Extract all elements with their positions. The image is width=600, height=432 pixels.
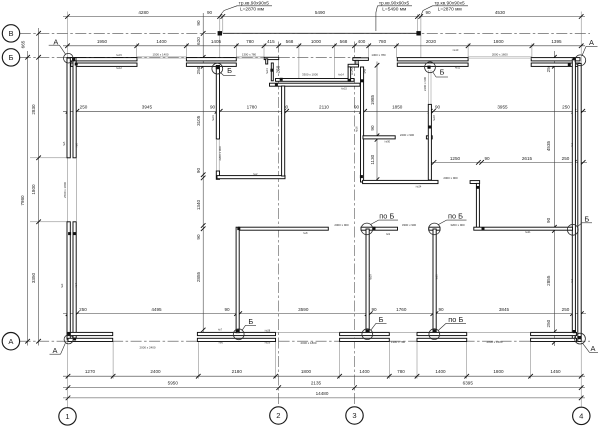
interior wall room right door opening twin faint lines (428, 70, 430, 104)
svg-text:3: 3 (352, 411, 356, 420)
extension lines post 1 (219, 16, 221, 59)
step middle horizontal piece (348, 64, 358, 67)
bottom wall upper chord seg 2180 (197, 332, 275, 335)
junction circle Б (bottom wall 2) (362, 329, 373, 340)
svg-text:№28: №28 (265, 328, 271, 332)
splice block left wall b (73, 232, 76, 235)
svg-text:1800: 1800 (31, 184, 36, 195)
svg-text:2180: 2180 (232, 369, 243, 374)
svg-text:№1: №1 (570, 278, 574, 283)
corner block bottom-right a (573, 330, 576, 333)
interior hook wall vertical (476, 183, 479, 229)
svg-text:№30: №30 (384, 140, 390, 144)
junction block bottom wall 1 (236, 329, 239, 332)
svg-text:№21: №21 (525, 230, 531, 234)
bottom wall upper chord seg 1400a (340, 332, 390, 335)
junction block top wall mid (427, 66, 430, 69)
svg-text:90: 90 (484, 156, 490, 161)
dimension line mid column (620/3105/1340/2855) (202, 13, 204, 333)
svg-text:№6: №6 (74, 143, 78, 148)
svg-text:1800: 1800 (493, 369, 504, 374)
window sill line top wall gap 1500x1400 (137, 56, 186, 58)
right wall outer chord (572, 59, 575, 342)
junction block recess b (280, 78, 283, 81)
svg-text:L=2870 мм: L=2870 мм (240, 7, 264, 13)
interior wall room right vertical solid part (428, 104, 431, 180)
svg-text:3350: 3350 (31, 272, 36, 283)
extension lines left (30, 157, 68, 159)
dimension line right column (250/4535/90/2855/250) (553, 51, 555, 346)
junction block room left wall top (360, 79, 363, 82)
recess wall upper chord (276, 79, 355, 82)
axis bubble 3 (346, 407, 363, 424)
step left connector vertical lower (348, 67, 351, 81)
svg-text:№31: №31 (211, 115, 215, 121)
svg-text:L=5490 мм: L=5490 мм (382, 7, 406, 13)
interior wall vertical below по Б 2 (433, 229, 436, 332)
dimension line interior row (4495/3590/1760/3845) (63, 313, 586, 315)
svg-text:№4: №4 (74, 283, 78, 288)
junction block top-right a (573, 57, 576, 60)
svg-text:3845: 3845 (499, 307, 510, 312)
svg-text:№3: №3 (60, 283, 64, 288)
svg-text:14480: 14480 (316, 391, 329, 396)
left wall inner chord lower segment (73, 222, 76, 339)
svg-text:90: 90 (435, 105, 441, 110)
svg-text:3955: 3955 (497, 105, 508, 110)
axis bubble Б (2, 49, 19, 66)
svg-text:В: В (8, 29, 13, 38)
svg-text:Б: Б (227, 66, 232, 75)
corner circle А bottom-right (575, 333, 586, 344)
svg-text:№24: №24 (416, 185, 422, 189)
svg-text:№13: №13 (265, 68, 269, 74)
svg-text:1130: 1130 (370, 154, 375, 164)
splice block left wall a (68, 232, 71, 235)
svg-text:1800: 1800 (301, 369, 312, 374)
svg-text:2615: 2615 (522, 156, 533, 161)
junction block bottom wall 3 (433, 329, 436, 332)
svg-text:780: 780 (246, 39, 254, 44)
svg-text:№7: №7 (218, 327, 223, 331)
top wall Б upper chord seg 1395 (531, 58, 580, 61)
axis line 3 vertical (354, 42, 356, 407)
junction block beam at по Б circle (372, 227, 375, 230)
extension lines bottom (112, 341, 114, 379)
svg-text:2000 х 1600: 2000 х 1600 (487, 340, 503, 344)
svg-text:№6: №6 (219, 340, 224, 344)
window sill line bottom wall gap 2000x1800 (276, 331, 340, 333)
svg-text:1300 х 780: 1300 х 780 (391, 340, 406, 344)
svg-text:250: 250 (80, 105, 88, 110)
step top wall segment (400) (353, 58, 369, 61)
interior wall 1 vertical upper part (216, 66, 219, 140)
recess wall lower chord (270, 83, 361, 86)
svg-text:2: 2 (276, 411, 280, 420)
svg-text:№20: №20 (435, 274, 439, 280)
dimension line right interior row (1250/90/2615/250) (430, 161, 587, 163)
bottom wall lower chord seg 1400b (417, 338, 467, 341)
svg-text:3945: 3945 (142, 105, 153, 110)
top wall Б upper chord seg 1950 (71, 58, 137, 61)
corner block bottom-left a (68, 333, 71, 336)
wall axis3 room left vertical (361, 67, 364, 182)
svg-text:250: 250 (562, 105, 570, 110)
svg-text:568: 568 (340, 39, 348, 44)
interior beam Б-line seg 2 (361, 227, 398, 230)
axis bubble В (2, 25, 19, 42)
svg-text:620: 620 (196, 37, 201, 45)
svg-text:1760: 1760 (396, 307, 407, 312)
junction block recess d (348, 79, 351, 82)
svg-text:250: 250 (196, 66, 201, 74)
axis line А horizontal (20, 340, 590, 342)
svg-text:5490: 5490 (315, 10, 326, 15)
bottom wall lower chord seg A (68, 338, 113, 341)
svg-text:№18: №18 (432, 115, 436, 121)
junction circle Б (top wall left) (212, 63, 223, 74)
bottom wall lower chord seg 1400a (340, 338, 390, 341)
svg-text:А: А (591, 344, 596, 353)
svg-text:2500 х 1800: 2500 х 1800 (63, 182, 67, 198)
steel post 1 (black square) (218, 31, 222, 35)
dimension line bottom row 2 (5950/2135/6395) (63, 387, 585, 389)
svg-text:665: 665 (21, 40, 26, 48)
svg-text:2200 х 900: 2200 х 900 (400, 133, 415, 137)
svg-text:№2: №2 (253, 172, 258, 176)
svg-text:1000: 1000 (311, 39, 322, 44)
axis line 2 vertical (277, 42, 279, 407)
interior shelf wall left piece (363, 136, 395, 139)
bottom wall lower chord seg 2180 (197, 338, 275, 341)
svg-text:90: 90 (370, 125, 375, 131)
svg-text:А: А (589, 38, 594, 47)
svg-text:5950: 5950 (168, 381, 179, 386)
junction block beam seg4 left end (482, 227, 485, 230)
svg-text:№1: №1 (570, 142, 574, 147)
svg-text:3105: 3105 (196, 115, 201, 126)
svg-text:4280: 4280 (138, 10, 149, 15)
svg-text:4535: 4535 (546, 140, 551, 151)
bottom wall upper chord seg 1400b (417, 332, 467, 335)
dimension line left inner column (665/2830/1800/3350) (38, 28, 40, 346)
svg-text:1985: 1985 (370, 94, 375, 105)
interior wall vertical below по Б 1 (366, 229, 369, 332)
svg-text:1300 х 780: 1300 х 780 (242, 52, 257, 56)
junction block at Б circle top (216, 66, 219, 69)
svg-text:90: 90 (354, 105, 360, 110)
svg-text:2855: 2855 (546, 275, 551, 286)
junction circle по Б (beam 1) (361, 223, 373, 235)
interior shelf wall right piece (426, 136, 432, 139)
interior beam Б-line seg 4 №21 (474, 227, 573, 230)
svg-text:4530: 4530 (495, 10, 506, 15)
interior beam Б-line seg 1 (239, 227, 329, 230)
svg-text:3200 х 900: 3200 х 900 (450, 223, 465, 227)
interior wall 3 vertical (from recess) (282, 86, 285, 176)
junction block recess c (275, 83, 278, 86)
svg-text:2000 х 1800: 2000 х 1800 (301, 341, 317, 345)
svg-text:№8: №8 (303, 231, 308, 235)
window sill line bottom wall gap 1300x780 (389, 331, 417, 333)
junction block top-left a (72, 58, 75, 61)
left wall inner chord upper segment (73, 61, 76, 158)
svg-text:1400: 1400 (156, 39, 167, 44)
svg-text:250: 250 (562, 307, 570, 312)
svg-text:по Б: по Б (448, 315, 463, 324)
svg-text:1400: 1400 (435, 369, 446, 374)
svg-text:1270: 1270 (85, 369, 96, 374)
svg-text:№11: №11 (455, 66, 461, 70)
corner circle А top-left (64, 53, 74, 63)
svg-text:№16: №16 (355, 126, 359, 132)
window sill line left wall gap 2500x1800 (75, 158, 77, 222)
dimension line bottom row 1 (63, 375, 585, 377)
svg-text:Б: Б (584, 214, 589, 223)
svg-text:2000 х 2400: 2000 х 2400 (140, 346, 156, 350)
svg-text:90: 90 (425, 10, 431, 15)
svg-text:4: 4 (579, 412, 583, 421)
dimension line room column (1985/90/1130) (376, 62, 378, 184)
dimension line bottom row 3 (14480) (63, 397, 585, 399)
interior beam Б-line seg 3 (429, 227, 440, 230)
svg-text:1395: 1395 (551, 39, 562, 44)
svg-text:3300 х 1000: 3300 х 1000 (302, 73, 318, 77)
bottom wall upper chord seg 1450 (531, 332, 577, 335)
svg-text:3300 х 900: 3300 х 900 (402, 223, 417, 227)
junction circle Б (top wall mid) (425, 62, 436, 73)
axis bubble А (2, 333, 19, 350)
svg-text:Б: Б (379, 315, 384, 324)
svg-text:90: 90 (224, 307, 230, 312)
svg-text:№5: №5 (62, 141, 66, 146)
svg-text:Б: Б (248, 317, 253, 326)
step top horizontal piece (415 seg) (264, 57, 279, 59)
svg-text:№15: №15 (341, 86, 347, 90)
svg-text:250: 250 (79, 307, 87, 312)
svg-text:90: 90 (371, 307, 377, 312)
interior hook wall horizontal (470, 181, 480, 184)
left wall outer chord lower segment (67, 222, 70, 339)
extension line right window (552, 65, 572, 67)
svg-text:2000 х 1600: 2000 х 1600 (492, 52, 508, 56)
svg-text:1: 1 (65, 412, 69, 421)
svg-text:250: 250 (562, 156, 570, 161)
dimension line left outer column (7980) (27, 51, 29, 346)
svg-text:№10: №10 (453, 48, 459, 52)
svg-text:1850: 1850 (392, 105, 403, 110)
svg-text:2020: 2020 (426, 39, 437, 44)
corner block bottom-left b (73, 338, 76, 341)
svg-text:780: 780 (397, 369, 405, 374)
svg-text:Б: Б (9, 53, 14, 62)
junction circle Б (bottom wall 1) (233, 329, 244, 340)
axis line 4 vertical (580, 12, 582, 408)
svg-text:2135: 2135 (311, 381, 322, 386)
svg-text:2200 х 900: 2200 х 900 (218, 146, 222, 161)
svg-text:90: 90 (210, 105, 216, 110)
corner block bottom-right b (578, 336, 581, 339)
recess left wall outer connector (266, 59, 268, 64)
left wall outer chord upper segment (67, 58, 70, 158)
top wall Б upper chord seg 2020 (397, 58, 468, 61)
right wall inner chord (578, 64, 581, 342)
junction block recess a (270, 69, 273, 72)
corner circle А bottom-left (64, 335, 73, 344)
svg-text:1950: 1950 (97, 39, 108, 44)
dimension line interior row (3945/1780/2110/1850/3955) (63, 110, 586, 112)
dimension line top row 1 (4280/90/5490/90/4530) (63, 16, 585, 18)
junction block top-right b (568, 63, 571, 66)
svg-text:2000 х 900: 2000 х 900 (443, 176, 458, 180)
svg-text:L=2870 мм: L=2870 мм (438, 7, 462, 13)
axis line 1 vertical (67, 12, 69, 408)
junction block room left wall (360, 175, 363, 178)
svg-text:2830: 2830 (31, 104, 36, 115)
junction block room right wall (428, 126, 431, 129)
top wall corner piece upper (67, 58, 76, 61)
interior wall vertical axis2-area (236, 227, 239, 333)
svg-text:90: 90 (196, 168, 201, 174)
top wall Б upper chord seg 1405 (186, 58, 236, 61)
svg-text:1405: 1405 (211, 39, 222, 44)
svg-text:1400: 1400 (359, 369, 370, 374)
svg-text:250: 250 (276, 65, 281, 73)
axis line Б horizontal (20, 56, 361, 58)
window sill line top wall gap 1300x780 (236, 56, 264, 58)
svg-text:250: 250 (546, 319, 551, 327)
svg-text:А: А (53, 346, 58, 355)
svg-text:2400: 2400 (150, 369, 161, 374)
svg-text:№29: №29 (265, 340, 271, 344)
svg-text:№9: №9 (386, 232, 391, 236)
top wall Б lower chord seg 2020 (397, 63, 468, 66)
svg-text:1340: 1340 (196, 199, 201, 210)
svg-text:№19: №19 (368, 274, 372, 280)
svg-text:№15: №15 (116, 53, 122, 57)
svg-text:780: 780 (378, 39, 386, 44)
junction block hook wall (477, 186, 480, 189)
svg-text:3590: 3590 (298, 307, 309, 312)
svg-text:90: 90 (207, 10, 213, 15)
svg-text:90: 90 (546, 217, 551, 223)
junction block bottom wall 2 (366, 329, 369, 332)
svg-text:2110: 2110 (319, 105, 329, 110)
svg-text:№14: №14 (338, 72, 344, 76)
corner circle А top-right (575, 55, 586, 66)
svg-text:1300 х 780: 1300 х 780 (371, 53, 386, 57)
junction block beam corner axis2 (237, 227, 240, 230)
svg-text:1250: 1250 (450, 156, 461, 161)
bottom wall upper chord seg A (68, 332, 113, 335)
interior wall room bottom horizontal (363, 180, 438, 183)
junction circle по Б (bottom wall) (429, 329, 440, 340)
svg-text:2855: 2855 (196, 271, 201, 282)
svg-text:7980: 7980 (20, 195, 25, 206)
svg-text:400: 400 (358, 39, 366, 44)
axis bubble 1 (59, 408, 76, 425)
svg-text:415: 415 (267, 39, 275, 44)
window sill line bottom wall gap 2000x1600 (467, 331, 531, 333)
dimension line top row 2 (63, 45, 585, 47)
svg-text:2200 х 900: 2200 х 900 (423, 76, 427, 91)
svg-text:2000 х 900: 2000 х 900 (334, 223, 349, 227)
svg-text:по Б: по Б (379, 212, 394, 221)
svg-text:1780: 1780 (247, 105, 258, 110)
axis line B (В) horizontal (20, 32, 590, 34)
junction circle Б (right wall) (567, 224, 578, 235)
top wall Б lower chord seg 1395 (531, 63, 580, 66)
bottom wall lower chord seg 1450 (531, 338, 577, 341)
steel post 2 (black square) (416, 31, 420, 35)
junction block top-left b (75, 63, 78, 66)
svg-text:по Б: по Б (448, 212, 463, 221)
top wall Б lower chord seg 1950 (71, 63, 137, 66)
step right connector vertical upper (356, 60, 358, 67)
junction circle по Б (beam 2) (429, 223, 441, 235)
steel beam between posts on axis В (223, 32, 418, 34)
interior wall 1 door opening twin faint lines (216, 139, 218, 171)
svg-text:1800: 1800 (493, 39, 504, 44)
svg-text:1450: 1450 (550, 369, 561, 374)
axis bubble 2 (270, 407, 287, 424)
extension lines post 2 (417, 14, 419, 33)
svg-text:№12: №12 (116, 66, 122, 70)
interior wall 2 horizontal (217, 176, 285, 179)
extension lines top (136, 44, 138, 59)
svg-text:4495: 4495 (151, 307, 162, 312)
svg-text:568: 568 (286, 39, 294, 44)
recess left wall inner chord (271, 63, 273, 81)
axis bubble 4 (573, 407, 590, 424)
svg-text:1500 х 1400: 1500 х 1400 (153, 52, 169, 56)
svg-text:6395: 6395 (463, 381, 474, 386)
svg-text:90: 90 (438, 307, 444, 312)
interior wall 1 lower stub (216, 171, 219, 179)
top wall Б lower chord seg 1405 (186, 63, 236, 66)
window sill line top wall gap 2000x1600 (468, 56, 532, 58)
svg-text:90: 90 (196, 20, 201, 26)
svg-text:Б: Б (440, 68, 445, 77)
svg-text:90: 90 (196, 234, 201, 240)
